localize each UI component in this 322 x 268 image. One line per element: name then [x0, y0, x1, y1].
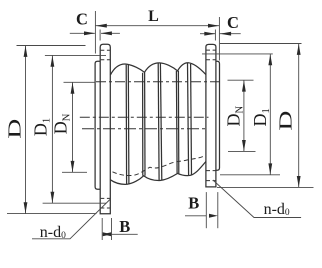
arrow C right inner: [204, 32, 215, 36]
ext line: D left top: [17, 45, 86, 47]
arrow DN right top: [242, 80, 246, 91]
dim C left arrows: [70, 32, 95, 34]
bellows hidden back bottom edge (dashed wavy): [113, 156, 206, 176]
arrow L right: [208, 24, 219, 28]
ext line: D left bottom: [7, 213, 97, 215]
svg-text:D1: D1: [31, 118, 53, 136]
svg-text:n-d0: n-d0: [40, 224, 66, 241]
centerline (pipe axis): [82, 128, 208, 130]
flange F1 bottom bolt hole hidden lines: [101, 198, 110, 208]
arrow D left bottom: [24, 202, 28, 213]
arrow D1 right bottom: [268, 163, 272, 174]
dim D left line: [25, 46, 27, 214]
arrow D1 left bottom: [51, 192, 55, 203]
ext line: DN right top: [228, 79, 254, 81]
bellows bottom outline (scalloped): [110, 162, 205, 185]
arrow DN left top: [71, 83, 75, 94]
ext line: D right top: [220, 43, 302, 45]
dim D1 right line: [269, 54, 271, 175]
arrow L left: [96, 24, 107, 28]
flange F1 top bolt hole hidden lines: [101, 50, 110, 60]
flange F1 (left) body: [100, 44, 110, 214]
ext line: right flange face (C): [214, 30, 216, 41]
ext line: left flange face (C): [99, 30, 101, 41]
ext line: DN left top: [64, 81, 96, 83]
arrow B right: [209, 214, 218, 218]
dim C right arrows: [200, 33, 215, 35]
dim D right line: [298, 44, 300, 188]
ext lines: B right: [205, 192, 207, 228]
bore hidden line top (DN level): [96, 81, 220, 83]
arrow D1 right top: [268, 54, 272, 65]
arrow B left pair: [102, 232, 111, 236]
ext line: D1 left bottom: [43, 202, 106, 204]
arrow D1 left top: [51, 56, 55, 67]
arrow D right top: [297, 44, 301, 55]
bellows top outline (3 convolutions): [110, 63, 205, 75]
leader n-d0 right: [213, 180, 301, 218]
ext line: D1 left top: [45, 54, 106, 56]
flange F2 (right) body: [206, 44, 216, 187]
svg-text:L: L: [148, 8, 159, 25]
ext line: left collar end (C/L): [94, 11, 96, 54]
svg-text:B: B: [188, 194, 199, 213]
svg-text:B: B: [119, 217, 130, 236]
convolution crest line pair 3: [188, 63, 189, 176]
dim L line: [95, 25, 219, 27]
leader n-d0 left: [32, 200, 110, 239]
arrow C left inner: [101, 31, 112, 35]
dim B right line: [185, 215, 206, 217]
ext line: D right bottom: [217, 186, 314, 188]
arrow DN right bottom: [242, 140, 246, 151]
convolution root line pair 2: [175, 71, 178, 173]
arrow DN left bottom: [71, 161, 75, 172]
collar (right pipe end): [216, 61, 220, 170]
hidden line mid: [80, 116, 209, 118]
convolution root line pair 1: [142, 73, 144, 176]
ext lines: B left: [101, 218, 103, 240]
svg-text:DN: DN: [224, 105, 246, 126]
svg-text:n-d0: n-d0: [264, 201, 290, 218]
svg-text:D1: D1: [250, 108, 272, 126]
collar (left pipe end): [95, 61, 100, 189]
arrowheads: [24, 24, 301, 237]
convolution crest line pair 2: [157, 63, 160, 180]
dim DN left line: [72, 82, 74, 172]
ext line: DN left bottom: [62, 171, 87, 173]
svg-text:D: D: [276, 111, 296, 131]
dim DN right line: [243, 80, 245, 151]
arrow D right bottom: [297, 176, 301, 187]
svg-text:C: C: [76, 10, 88, 29]
svg-text:D: D: [5, 119, 25, 139]
dim D1 left line: [51, 55, 53, 203]
arrow C right: [220, 32, 231, 36]
arrow D left top: [24, 46, 28, 57]
convolution crest line pair 1: [125, 65, 127, 185]
ext line: DN right bottom: [228, 150, 256, 152]
arrow C left: [84, 31, 95, 35]
svg-text:DN: DN: [50, 113, 71, 134]
flange F2 bottom bolt hole hidden lines: [206, 171, 215, 181]
svg-text:C: C: [227, 13, 239, 32]
ext line: D1 right top: [202, 53, 273, 55]
ext line: D1 right bottom: [220, 174, 280, 176]
ext line: right collar end (C/L): [218, 17, 220, 61]
flange F2 top bolt hole hidden lines: [206, 50, 215, 60]
dim B left line: [112, 233, 138, 235]
